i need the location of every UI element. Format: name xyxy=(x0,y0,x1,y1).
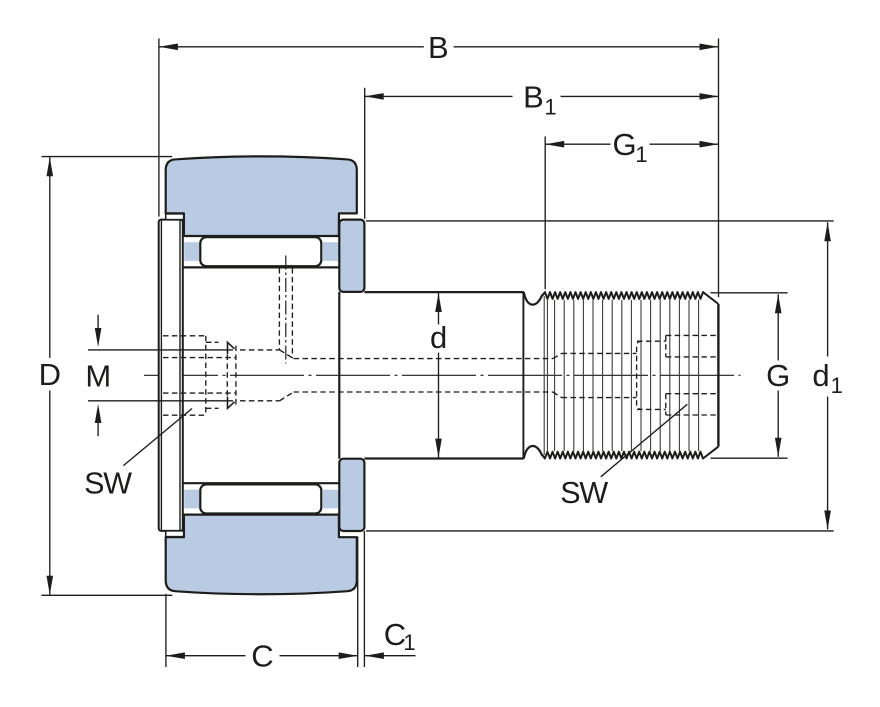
svg-text:B: B xyxy=(523,79,544,114)
radial lubrication duct hidden walls xyxy=(279,268,292,358)
left side washer (thrust plate) xyxy=(159,220,183,531)
axial lubrication duct hidden lines (stepped bore) xyxy=(163,353,636,397)
svg-text:1: 1 xyxy=(403,630,415,655)
svg-text:1: 1 xyxy=(831,373,843,398)
right hex socket hidden outline xyxy=(637,335,718,415)
dimension C1 extension line xyxy=(363,531,365,667)
stud right end face xyxy=(717,304,719,447)
dimension G1 extension line xyxy=(544,136,546,289)
thread runout shoulder line xyxy=(522,293,524,459)
stud raceway top edge xyxy=(183,266,339,268)
dimension d1 xyxy=(812,222,843,529)
stud shoulder step edge xyxy=(338,292,340,459)
centerline (shaft axis) xyxy=(144,374,741,376)
svg-text:D: D xyxy=(39,357,61,392)
left washer retaining tab top xyxy=(166,214,184,220)
svg-text:SW: SW xyxy=(84,467,132,501)
svg-text:G: G xyxy=(766,358,790,393)
left hex socket hidden outline xyxy=(163,336,294,415)
dimension D extension lines xyxy=(42,157,173,596)
dimension C extension lines xyxy=(166,537,358,668)
label SW left with leader xyxy=(84,409,192,501)
svg-text:1: 1 xyxy=(635,142,647,167)
dimension G extension lines xyxy=(711,293,788,458)
thread runout fade lines xyxy=(544,296,547,455)
thread runout groove top xyxy=(524,292,543,305)
thread crest profile top (with end chamfer) xyxy=(542,292,718,304)
svg-text:d: d xyxy=(430,320,447,355)
thread runout groove bottom xyxy=(524,446,543,459)
svg-text:d: d xyxy=(812,358,829,393)
left socket countersink edge (solid) xyxy=(228,342,235,408)
dimension D xyxy=(39,157,61,595)
dimension M arrows xyxy=(95,315,102,437)
right flange washer top (blue) xyxy=(339,220,364,292)
svg-text:M: M xyxy=(85,359,111,394)
dimension d xyxy=(430,293,447,458)
svg-text:B: B xyxy=(428,30,449,65)
thread crest profile bottom (with end chamfer) xyxy=(542,447,718,459)
dimension d1 extension lines xyxy=(366,221,834,531)
stud shank bottom edge xyxy=(364,457,523,459)
needle roller top (white) with cage blocks (blue) xyxy=(184,237,338,266)
dimension B1 xyxy=(365,79,719,119)
dimension G xyxy=(766,294,790,457)
dimension C1 xyxy=(365,617,416,659)
left washer retaining tab bottom xyxy=(166,531,184,537)
stud shank top edge (diameter d) xyxy=(364,291,523,293)
dimension B extension lines xyxy=(159,39,719,298)
radial duct centerline xyxy=(285,256,287,364)
dimension M extension lines xyxy=(88,350,233,401)
right flange washer bottom (blue) xyxy=(339,459,364,531)
thread flank lines xyxy=(555,300,699,451)
needle roller bottom (white) with cage blocks (blue) xyxy=(184,484,338,513)
svg-text:SW: SW xyxy=(560,476,608,510)
outer ring top half (blue, crowned OD) xyxy=(166,156,357,236)
svg-text:G: G xyxy=(612,127,636,162)
outer ring bottom half (blue, crowned OD) xyxy=(166,515,357,595)
label SW right with leader xyxy=(560,404,687,510)
svg-text:1: 1 xyxy=(544,94,556,119)
dimension B1 extension line xyxy=(364,88,366,219)
dimension G1 xyxy=(545,127,718,167)
dimension B xyxy=(159,30,719,65)
svg-text:C: C xyxy=(251,638,273,673)
stud raceway bottom edge xyxy=(183,482,339,484)
dimension C xyxy=(166,638,358,673)
